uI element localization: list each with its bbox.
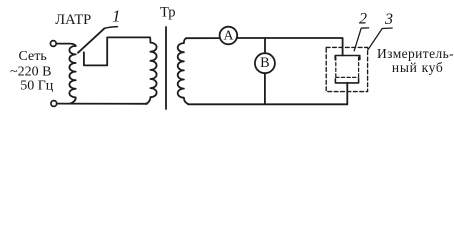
wire: top terminal to ЛАТР winding top <box>56 44 75 47</box>
measuring cube: outer dashed enclosure <box>326 47 367 91</box>
transformer Тр core <box>165 27 167 109</box>
callout leader for label 3 <box>368 28 392 50</box>
transformer Тр secondary winding <box>178 38 188 104</box>
measuring cube: bottom electrode plate <box>335 79 358 83</box>
svg-text:ЛАТР: ЛАТР <box>55 12 91 28</box>
terminal: top mains input <box>50 41 56 47</box>
wire: secondary top to ammeter <box>186 37 220 39</box>
measuring cube: sample cube (dashed sides and bottom) <box>336 57 359 77</box>
wire: voltmeter bottom to bottom rail <box>264 73 266 104</box>
svg-text:~220 В: ~220 В <box>10 64 51 79</box>
autotransformer ЛАТР winding <box>69 46 75 104</box>
callout leader for label 1 <box>105 27 118 29</box>
svg-text:1: 1 <box>112 6 121 25</box>
wire: branch down to voltmeter <box>264 38 266 53</box>
wire: bottom rail (mains / primary side) <box>57 103 147 105</box>
wire: bottom rail (secondary side) <box>188 103 347 105</box>
transformer Тр primary winding <box>146 37 157 103</box>
svg-text:2: 2 <box>359 11 367 28</box>
wire: ЛАТР wiper to transformer Тр primary top <box>84 37 150 65</box>
svg-text:Тр: Тр <box>160 5 176 21</box>
wire: stem from cube bottom plate down to bottom rail <box>346 83 348 105</box>
wire: ammeter to measuring cube (top rail with corner down) <box>237 38 343 55</box>
svg-text:В: В <box>260 55 269 71</box>
svg-text:Сеть: Сеть <box>19 49 47 64</box>
voltmeter B body <box>255 53 275 73</box>
callout leader for label 2 <box>354 28 369 51</box>
svg-text:50 Гц: 50 Гц <box>20 79 54 94</box>
wiper arrow of ЛАТР (tap) <box>78 28 105 53</box>
measuring cube: top electrode plate <box>335 56 360 60</box>
svg-text:Измеритель-: Измеритель- <box>377 46 454 61</box>
ammeter A body <box>220 27 238 45</box>
svg-text:А: А <box>224 28 234 43</box>
svg-text:3: 3 <box>384 11 393 28</box>
terminal: bottom mains input <box>51 101 57 107</box>
svg-text:ный куб: ный куб <box>392 60 444 75</box>
